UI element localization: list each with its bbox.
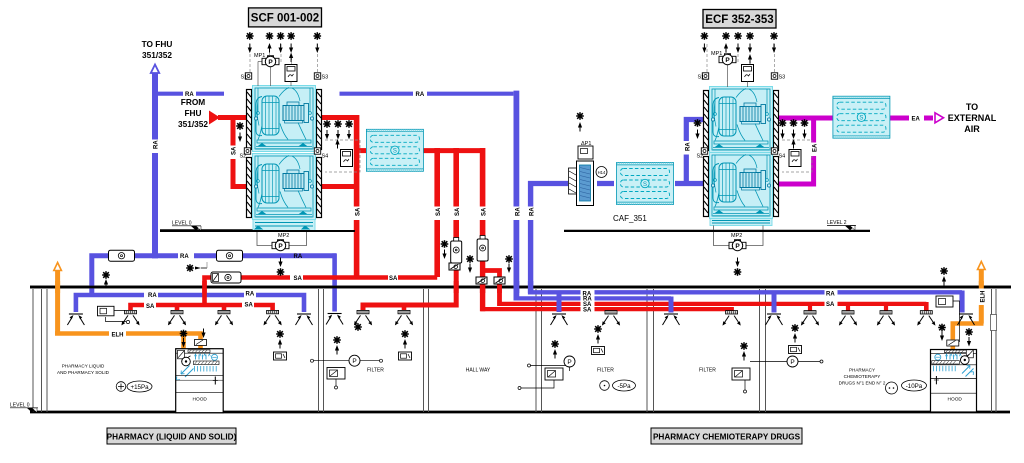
svg-text:SA: SA <box>146 304 155 310</box>
slab overlay <box>30 286 1011 289</box>
svg-text:SCF 001-002: SCF 001-002 <box>251 13 319 25</box>
S1 S3 top dampers <box>245 73 251 79</box>
svg-text:SA: SA <box>482 207 488 216</box>
svg-text:EXTERNAL: EXTERNAL <box>948 113 997 123</box>
right room sensor near RA <box>930 296 960 342</box>
left room RA y294.5 <box>76 295 304 312</box>
RA top horiz seg right + drop x515.5 <box>340 92 514 96</box>
svg-text:SA: SA <box>389 276 398 282</box>
ECF exhaust fan upper <box>704 87 779 153</box>
svg-text:RA: RA <box>685 142 691 151</box>
rotated labels <box>151 140 986 306</box>
svg-text:RA: RA <box>154 140 160 149</box>
svg-text:FILTER: FILTER <box>597 368 614 374</box>
svg-text:ΔP1: ΔP1 <box>581 141 591 147</box>
svg-text:RA: RA <box>826 291 835 297</box>
svg-text:FILTER: FILTER <box>699 368 716 374</box>
left room SA y305 <box>131 305 273 312</box>
svg-text:RA: RA <box>148 293 157 299</box>
FROM FHU into unit + tee down to lower fan <box>218 115 246 120</box>
SCF supply silencer <box>366 129 423 171</box>
svg-text:PHARMACY CHEMIOTERAPY DRUGS: PHARMACY CHEMIOTERAPY DRUGS <box>653 433 801 442</box>
svg-text:S4: S4 <box>322 154 329 160</box>
svg-text:S3: S3 <box>779 75 786 81</box>
svg-text:SA: SA <box>232 146 238 155</box>
left collector y255.7 <box>92 256 336 296</box>
svg-text:S1: S1 <box>241 75 248 81</box>
right hood <box>931 350 977 413</box>
filter room1 P + filter <box>311 336 385 389</box>
left room pressure sensor w wire <box>98 306 130 323</box>
svg-text:EA: EA <box>813 143 819 152</box>
svg-text:MP2: MP2 <box>731 233 742 239</box>
asterisk near left elbow <box>102 271 110 279</box>
svg-text:S3: S3 <box>322 75 329 81</box>
wall 3 <box>423 289 425 412</box>
svg-text:PHARMACY LIQUID: PHARMACY LIQUID <box>62 364 105 369</box>
verticals over slab <box>58 281 982 293</box>
SCF supply fan lower <box>247 154 322 220</box>
VAV box 2 <box>477 236 488 262</box>
RA2 drop x530.5 and ECF main y183.5 <box>528 181 533 295</box>
filter room3 <box>483 342 823 393</box>
unit base rails <box>253 220 315 231</box>
wall 2 <box>318 289 320 412</box>
MP1 <box>254 53 279 86</box>
svg-text:TO FHU: TO FHU <box>142 39 173 49</box>
LEVEL 0 line under SCF <box>160 221 253 231</box>
asterisks above SCF <box>246 32 321 62</box>
ECF upper inlet tee <box>686 120 704 187</box>
RA blue: TO FHU vertical <box>76 72 962 312</box>
SA1 from x482.6 <box>480 261 485 311</box>
ECF exhaust fan lower <box>704 153 779 219</box>
svg-text:-5Pa: -5Pa <box>617 383 631 390</box>
dashed sensor drop lines <box>250 44 360 172</box>
SA collector y277 <box>205 278 438 306</box>
wall left outer <box>33 289 996 412</box>
svg-text:SA: SA <box>826 302 835 308</box>
EA exhaust silencer <box>833 96 890 138</box>
svg-text:RA: RA <box>530 207 536 216</box>
svg-text:SA: SA <box>583 308 592 314</box>
svg-text:SA: SA <box>294 276 303 282</box>
SA stubs right rooms <box>609 308 613 313</box>
LEVEL 2 line under ECF <box>564 220 870 231</box>
red SA runs <box>131 115 927 312</box>
svg-text:EA: EA <box>912 117 921 123</box>
stubs to diffusers left room <box>175 303 180 312</box>
wall 5 <box>646 289 648 412</box>
lower floor <box>30 411 1010 414</box>
control box <box>285 65 297 82</box>
svg-text:RA: RA <box>180 254 189 260</box>
svg-text:HALL WAY: HALL WAY <box>466 368 491 374</box>
H14 filter <box>569 141 608 206</box>
level line overlays <box>160 230 355 232</box>
svg-text:FROM: FROM <box>181 97 206 107</box>
svg-text:PHARMACY: PHARMACY <box>849 368 875 373</box>
svg-text:FHU: FHU <box>184 108 201 118</box>
svg-text:ELH: ELH <box>112 333 124 339</box>
left hood <box>176 349 224 413</box>
SCF supply fan upper <box>247 86 322 152</box>
svg-text:S2: S2 <box>697 154 704 160</box>
RA devices on left collector <box>109 250 135 261</box>
svg-text:PHARMACY (LIQUID AND SOLID): PHARMACY (LIQUID AND SOLID) <box>107 433 237 442</box>
MP2 under unit <box>257 231 307 251</box>
VAV box 1 <box>451 238 462 264</box>
svg-text:S4: S4 <box>779 154 786 160</box>
svg-text:-10Pa: -10Pa <box>906 383 923 390</box>
svg-text:351/352: 351/352 <box>178 119 208 129</box>
silencer out + drops <box>423 148 482 153</box>
svg-text:AND PHARMACY SOLID: AND PHARMACY SOLID <box>57 370 110 375</box>
svg-text:SA: SA <box>356 207 362 216</box>
svg-text:RA: RA <box>416 92 425 98</box>
svg-text:RA: RA <box>185 92 194 98</box>
magenta EA <box>778 113 944 184</box>
svg-text:ELH: ELH <box>980 291 986 303</box>
LEVEL 0 marker bottom left <box>10 403 38 413</box>
svg-text:SA: SA <box>436 207 442 216</box>
wall 6 <box>759 289 761 412</box>
wall 4 <box>535 289 537 412</box>
asterisks under MP2s <box>278 258 282 268</box>
svg-text:FILTER: FILTER <box>367 368 384 374</box>
svg-text:MP2: MP2 <box>278 233 289 239</box>
small box on right wall <box>991 315 997 331</box>
svg-text:AIR: AIR <box>964 124 980 134</box>
svg-text:+15Pa: +15Pa <box>130 384 149 391</box>
silencer CAF_351 <box>617 163 674 205</box>
svg-text:SA: SA <box>455 207 461 216</box>
svg-text:H14: H14 <box>598 170 606 175</box>
filter room2 <box>518 340 614 389</box>
svg-text:S1: S1 <box>698 75 705 81</box>
upper slab <box>30 286 1011 289</box>
svg-text:351/352: 351/352 <box>142 50 172 60</box>
svg-text:MP1: MP1 <box>711 51 722 57</box>
svg-text:SA: SA <box>245 303 254 309</box>
svg-text:CAF_351: CAF_351 <box>613 214 647 223</box>
svg-text:HOOD: HOOD <box>193 397 208 403</box>
orange hood valves + asterisks <box>195 340 207 346</box>
silencer stub <box>357 148 367 153</box>
svg-text:ECF 352-353: ECF 352-353 <box>705 14 773 26</box>
wall right outer <box>991 289 993 412</box>
svg-text:DRUGS N°1 END N° 2: DRUGS N°1 END N° 2 <box>839 381 886 386</box>
blue drops over red <box>559 291 962 313</box>
SA2 jog from VAV x482.6 right then down x499.5 <box>481 271 500 307</box>
thermostats with asterisks <box>274 352 287 360</box>
svg-text:RA: RA <box>294 254 303 260</box>
ast near dP1 <box>576 112 584 120</box>
SCF outputs right to collector x356.5 <box>322 115 357 120</box>
svg-text:RA: RA <box>246 292 255 298</box>
svg-text:HOOD: HOOD <box>948 397 963 403</box>
svg-text:RA: RA <box>516 207 522 216</box>
orange ELH <box>54 73 985 349</box>
filter room segment y305 from VAV x456 <box>363 263 456 312</box>
svg-text:CHEMIOTERAPY: CHEMIOTERAPY <box>844 374 881 379</box>
side asterisks SCF <box>236 122 244 130</box>
svg-text:S2: S2 <box>240 154 247 160</box>
svg-text:TO: TO <box>966 102 978 112</box>
svg-text:MP1: MP1 <box>254 53 265 59</box>
SA device y277 <box>211 272 241 283</box>
RA top horiz seg left <box>158 92 183 96</box>
S2 S4 mid dampers <box>244 148 250 154</box>
